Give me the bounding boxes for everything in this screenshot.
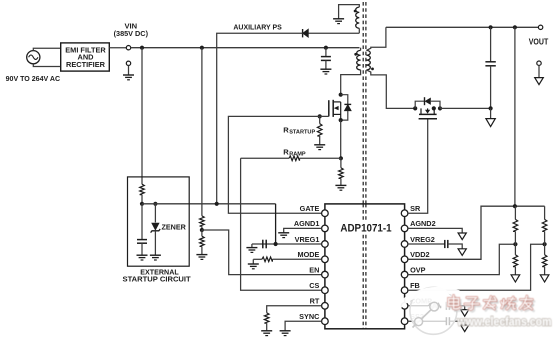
wire node to capacitor C2 xyxy=(141,204,143,240)
pin SYNC of U1 xyxy=(322,318,329,325)
node VOUT rail / output cap xyxy=(489,25,493,29)
wire FB to divider tap xyxy=(408,244,545,290)
pin EN of U1 xyxy=(322,271,329,278)
VOUT terminal xyxy=(538,25,542,29)
svg-text:STARTUP: STARTUP xyxy=(289,130,315,136)
svg-text:STARTUP CIRCUIT: STARTUP CIRCUIT xyxy=(123,276,192,283)
resistor R8 (OVP divider bottom) xyxy=(513,244,518,266)
svg-text:MODE: MODE xyxy=(297,250,319,259)
watermark logo plug icon xyxy=(413,302,439,327)
wire VDD2 to VOUT xyxy=(408,206,545,259)
label VREG2 xyxy=(410,235,435,244)
capacitor C7 (SS2) xyxy=(446,317,449,325)
diode D1 (auxiliary rectifier) xyxy=(303,29,309,37)
VIN- terminal xyxy=(126,61,130,65)
wire capacitor C1 to ground xyxy=(325,60,327,69)
VOUT return terminal xyxy=(537,61,541,65)
node VIN rail / EN divider feed xyxy=(200,46,204,50)
watermark text dianzifashaoyou xyxy=(449,296,534,312)
pin AGND1 of U1 xyxy=(322,225,329,232)
svg-text:RECTIFIER: RECTIFIER xyxy=(66,60,106,69)
label COMP xyxy=(410,297,432,306)
ground primary (auxiliary winding) xyxy=(333,19,344,24)
node VREG1 xyxy=(274,242,278,246)
wire OVP to divider tap xyxy=(408,244,516,274)
label GATE xyxy=(300,204,320,213)
wire C7 to ground xyxy=(449,321,464,325)
wire VOUT return to ground xyxy=(538,65,540,77)
label FB xyxy=(410,281,420,290)
label ZENER xyxy=(162,223,187,232)
label AGND2 xyxy=(410,219,436,228)
op-amp U1 ADP1071-1 body xyxy=(325,204,405,329)
node VIN rail / startup feed xyxy=(140,46,144,50)
pin SR of U1 xyxy=(401,210,408,217)
node startup divider B xyxy=(153,202,157,206)
node startup divider A xyxy=(140,202,144,206)
svg-text:EN: EN xyxy=(309,265,319,274)
ground primary (MODE) xyxy=(248,264,259,269)
resistor RRAMP xyxy=(241,156,341,161)
wire VIN to EN divider xyxy=(201,48,203,216)
label CS xyxy=(309,281,319,290)
wire C6 to ground xyxy=(449,306,464,310)
svg-text:VREG2: VREG2 xyxy=(410,235,435,244)
svg-text:(385V DC): (385V DC) xyxy=(114,29,149,38)
ground primary (C3) xyxy=(246,248,257,253)
capacitor C5 (VREG2) xyxy=(445,240,448,248)
wire startup resistor to node xyxy=(141,195,143,204)
label OVP xyxy=(410,265,426,274)
label AUXILIARY PS xyxy=(233,22,281,31)
label VREG1 xyxy=(295,235,320,244)
pin MODE of U1 xyxy=(322,256,329,263)
wire primary bottom to MOSFET Q1 drain xyxy=(341,70,361,95)
wire AGND1 to ground xyxy=(284,228,322,232)
node VIN rail / input cap xyxy=(324,46,328,50)
watermark logo disc xyxy=(400,287,458,334)
wire capacitor C4 to output node xyxy=(490,66,492,109)
wire R9 to tap xyxy=(544,231,546,244)
ground secondary (FB divider) xyxy=(540,275,549,282)
node Q1 gate xyxy=(318,114,322,118)
wire EN tap to EN pin xyxy=(202,230,322,275)
wire Q2 to output node xyxy=(440,107,491,109)
wire EMI filter output to VIN terminal xyxy=(109,47,126,49)
svg-text:ZENER: ZENER xyxy=(162,223,187,232)
pin VREG1 of U1 xyxy=(322,241,329,248)
label RT xyxy=(310,297,320,306)
node Q2 diode return xyxy=(438,106,442,110)
pin AGND2 of U1 xyxy=(401,225,408,232)
wire EN tap to R3 xyxy=(201,230,203,236)
capacitor C3 (VREG1) xyxy=(263,240,266,249)
label SS2 xyxy=(410,312,424,321)
node output return xyxy=(489,106,493,110)
resistor R10 (FB divider bottom) xyxy=(542,244,547,266)
pin SS2 of U1 xyxy=(401,318,408,325)
svg-text:CS: CS xyxy=(309,281,319,290)
wire secondary bottom to SR MOSFET xyxy=(366,70,415,109)
node current sense xyxy=(339,156,343,160)
wire R8 to ground xyxy=(514,267,516,275)
node OVP tap xyxy=(513,242,517,246)
capacitor C4 (output) xyxy=(485,62,495,66)
wire AGND2 to ground xyxy=(408,228,462,233)
label RRAMP xyxy=(283,147,306,157)
label VIN (385V DC) xyxy=(114,21,149,38)
label SR xyxy=(410,204,421,213)
label 90V TO 264V AC xyxy=(6,74,61,83)
transistor Q1 (primary NMOS) xyxy=(329,100,341,120)
wire VREG1 node to startup line xyxy=(275,204,277,244)
transformer T1 auxiliary winding xyxy=(356,7,360,28)
label ADP1071-1 xyxy=(339,222,393,235)
capacitor C1 (VIN bypass) xyxy=(321,57,331,61)
wire SR pin to Q2 gate xyxy=(408,119,428,213)
diode D3 (Q1 body diode) xyxy=(341,95,352,120)
zener diode D2 ZENER xyxy=(151,223,161,233)
resistor RSTARTUP xyxy=(317,116,322,136)
ground secondary (OVP divider) xyxy=(511,275,520,282)
svg-text:RAMP: RAMP xyxy=(289,152,306,158)
wire VOUT rail down to divider xyxy=(514,27,516,206)
ground primary (C2) xyxy=(137,255,148,260)
wire VIN rail xyxy=(131,47,360,49)
label EN xyxy=(309,265,319,274)
wire VIN rail to capacitor C1 xyxy=(325,48,327,57)
pin CS of U1 xyxy=(322,287,329,294)
node Q2 drain xyxy=(432,106,436,110)
node EN tap xyxy=(200,228,204,232)
svg-text:VOUT: VOUT xyxy=(529,38,549,47)
label VOUT xyxy=(529,38,549,47)
resistor R4 (current sense) xyxy=(339,158,344,178)
node Q2 source xyxy=(413,106,417,110)
wire diode D1 to VREG1 node xyxy=(217,33,303,204)
wire VOUT rail to capacitor C4 xyxy=(490,27,492,62)
pin OVP of U1 xyxy=(401,271,408,278)
svg-text:AGND2: AGND2 xyxy=(410,219,436,228)
resistor R1 (startup, in box) xyxy=(140,184,145,194)
ground secondary (SS2) xyxy=(461,325,469,332)
ground secondary (AGND2) xyxy=(458,233,466,240)
node Q1 drain xyxy=(339,93,343,97)
resistor R3 (EN divider bottom) xyxy=(200,236,205,246)
svg-text:AUXILIARY PS: AUXILIARY PS xyxy=(233,22,281,31)
wire AC source to EMI filter (bottom) xyxy=(33,64,60,67)
node phase dot primary xyxy=(354,53,357,56)
svg-text:GATE: GATE xyxy=(300,204,320,213)
wire node to zener xyxy=(154,204,156,223)
watermark text www.elecfans.com xyxy=(457,315,552,329)
wire RRAMP to CS pin xyxy=(241,158,322,290)
svg-text:AGND1: AGND1 xyxy=(294,219,320,228)
svg-text:SYNC: SYNC xyxy=(299,312,320,321)
node auxiliary feed / VREG1 line xyxy=(215,202,219,206)
svg-text:www.elecfans.com: www.elecfans.com xyxy=(457,315,552,329)
ground primary (EN divider) xyxy=(196,255,207,260)
wire R5 to ground xyxy=(252,259,254,264)
resistor R5 (MODE) xyxy=(253,257,321,262)
ground secondary (VOUT return) xyxy=(535,78,544,85)
wire VREG2 pin to capacitor xyxy=(408,243,445,245)
node VOUT rail / feedback rail xyxy=(513,25,517,29)
svg-text:90V TO 264V AC: 90V TO 264V AC xyxy=(6,74,61,83)
label EXTERNAL STARTUP CIRCUIT xyxy=(123,269,192,283)
node phase dot secondary xyxy=(371,68,374,71)
wire auxiliary winding top to ground xyxy=(339,5,360,19)
U1 internal isolation barrier (dashed) xyxy=(363,204,366,329)
ground primary (VIN- terminal) xyxy=(123,75,134,80)
ground primary (zener) xyxy=(150,255,161,260)
resistor R2 (EN divider top) xyxy=(200,216,205,226)
wire VOUT rail xyxy=(386,26,539,28)
EMI filter and rectifier block xyxy=(61,43,110,71)
wire C5 to ground xyxy=(448,244,462,249)
AC source V1 90V-264V AC xyxy=(27,51,40,64)
wire SYNC to ground xyxy=(285,321,322,331)
wire output node to ground xyxy=(490,108,492,118)
VIN terminal xyxy=(126,46,130,50)
label AGND1 xyxy=(294,219,320,228)
capacitor C2 (startup) xyxy=(137,240,147,244)
node Q1 source xyxy=(339,118,343,122)
wire zener to ground xyxy=(154,231,156,255)
transformer T1 secondary winding xyxy=(366,50,370,70)
svg-text:VDD2: VDD2 xyxy=(410,250,429,259)
label RSTARTUP xyxy=(283,125,315,135)
svg-text:FB: FB xyxy=(410,281,420,290)
pin RT of U1 xyxy=(322,303,329,310)
svg-text:SR: SR xyxy=(410,204,421,213)
wire Q1 source to current sense node xyxy=(340,120,342,158)
wire RSTARTUP to ground xyxy=(319,136,321,145)
svg-text:OVP: OVP xyxy=(410,265,426,274)
wire R3 to ground xyxy=(201,246,203,254)
wire AC source to EMI filter (top) xyxy=(33,48,60,50)
ground primary (SYNC) xyxy=(280,331,291,336)
label SYNC xyxy=(299,312,320,321)
wire C3 to ground xyxy=(251,244,253,248)
pin GATE of U1 xyxy=(322,210,329,217)
wire capacitor C2 to ground xyxy=(141,243,143,255)
ground secondary (VREG2) xyxy=(458,249,466,256)
pin VREG2 of U1 xyxy=(401,241,408,248)
resistor R6 (RT) xyxy=(264,306,321,323)
wire VREG1 pin xyxy=(252,243,322,245)
pin VDD2 of U1 xyxy=(401,256,408,263)
external startup circuit box xyxy=(128,177,190,266)
transformer T1 primary winding xyxy=(357,50,361,70)
node VOUT divider feed xyxy=(513,204,517,208)
ground primary (current sense) xyxy=(335,185,346,190)
wire R10 to ground xyxy=(544,267,546,275)
transistor Q2 (synchronous rectifier NMOS) xyxy=(419,108,437,118)
diode D4 (Q2 body diode) xyxy=(415,97,440,108)
ground primary (RT) xyxy=(261,331,272,336)
svg-text:RT: RT xyxy=(310,297,320,306)
wire auxiliary winding bottom lead xyxy=(358,28,360,33)
pin FB of U1 xyxy=(401,287,408,294)
ground secondary (COMP) xyxy=(461,310,469,317)
label VDD2 xyxy=(410,250,429,259)
pin COMP of U1 xyxy=(401,303,408,310)
resistor R9 (FB divider top) xyxy=(542,206,547,231)
label MODE xyxy=(297,250,319,259)
wire R7 to tap xyxy=(514,231,516,244)
wire auxiliary winding to diode xyxy=(308,32,359,34)
resistor R11 (COMP) xyxy=(408,304,441,309)
ground primary (RSTARTUP) xyxy=(314,145,325,150)
ground primary (C1) xyxy=(320,69,331,74)
wire R2 to EN tap xyxy=(201,226,203,230)
resistor R7 (OVP divider top) xyxy=(513,206,518,231)
wire VIN- terminal to ground xyxy=(128,66,130,76)
wire secondary top to VOUT rail xyxy=(366,27,386,50)
wire R6 to ground xyxy=(266,323,268,331)
wire startup node to VREG1 line xyxy=(142,203,276,205)
ground primary (AGND1) xyxy=(278,233,289,238)
node phase dot auxiliary xyxy=(354,10,357,13)
svg-text:VREG1: VREG1 xyxy=(295,235,320,244)
wire R4 to ground xyxy=(340,178,342,185)
svg-text:ADP1071-1: ADP1071-1 xyxy=(340,223,391,235)
wire GATE pin to Q1 gate xyxy=(228,116,328,213)
ground secondary (output) xyxy=(486,119,495,127)
wire VIN rail to primary top xyxy=(360,48,362,51)
svg-text:EXTERNAL: EXTERNAL xyxy=(140,269,179,276)
transformer T1 core (dashed) xyxy=(363,2,366,204)
node FB tap xyxy=(543,242,547,246)
wire SS2 to capacitor xyxy=(408,320,447,322)
wire VIN to startup resistor xyxy=(141,48,143,185)
capacitor C6 (COMP) xyxy=(446,302,449,310)
